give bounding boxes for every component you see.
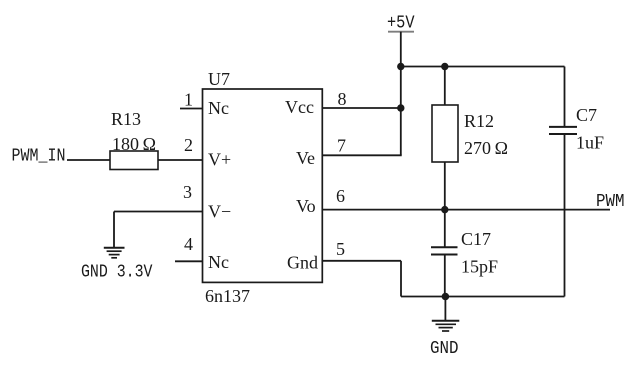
wire pin 1 stub (180, 108, 203, 110)
svg-text:2: 2 (184, 135, 193, 155)
svg-text:7: 7 (337, 136, 346, 156)
wire pin 5 horizontal (322, 260, 401, 262)
wire R13 to pin 2 (158, 159, 203, 161)
wire top rail (401, 66, 565, 68)
svg-text:Ve: Ve (296, 148, 315, 168)
svg-text:C17: C17 (461, 229, 491, 249)
wire pin 6 output to PWM (322, 209, 610, 211)
ground symbol right (GND) (432, 321, 460, 331)
junction ground node (442, 293, 450, 301)
wire R12 top lead (444, 67, 446, 106)
wire C17 bottom lead (444, 255, 446, 297)
wire PWM_IN to R13 (67, 159, 110, 161)
wire bottom ground rail (401, 296, 565, 298)
svg-text:R12: R12 (464, 111, 494, 131)
wire R12 bottom lead (444, 162, 446, 210)
svg-text:5: 5 (336, 239, 345, 259)
svg-text:PWM: PWM (596, 192, 625, 212)
wire +5V down to rail (400, 32, 402, 67)
IC U7 body (203, 89, 323, 282)
svg-text:1: 1 (184, 90, 193, 110)
svg-text:V−: V− (208, 202, 231, 222)
junction rail at R12 (441, 63, 448, 70)
svg-text:PWM_IN: PWM_IN (12, 147, 66, 167)
svg-text:1uF: 1uF (576, 133, 604, 153)
ground symbol left (3.3V ground) (104, 248, 125, 258)
svg-text:R13: R13 (111, 109, 141, 129)
wire pin 3 down to ground (113, 212, 115, 248)
svg-text:180 Ω: 180 Ω (112, 134, 156, 154)
wire right branch lower (C7 to ground rail) (564, 134, 566, 297)
svg-text:8: 8 (338, 89, 347, 109)
svg-text:4: 4 (184, 234, 193, 254)
junction pin 8 node (397, 104, 404, 111)
junction Vo node at R12/C17 (441, 206, 448, 213)
wire pin 8 to supply (322, 107, 401, 109)
svg-text:U7: U7 (208, 69, 230, 89)
capacitor C17 (431, 247, 458, 254)
wire pin 4 stub (175, 260, 203, 262)
resistor R13 (110, 151, 158, 170)
wire ground stem (444, 297, 446, 321)
svg-text:6n137: 6n137 (205, 286, 250, 306)
wire pin 3 horizontal (114, 211, 203, 213)
resistor R12 (432, 105, 458, 162)
svg-text:Vo: Vo (296, 196, 316, 216)
wire right branch upper (rail to C7) (564, 67, 566, 127)
svg-text:C7: C7 (576, 105, 597, 125)
capacitor C7 (549, 127, 577, 134)
svg-text:Gnd: Gnd (287, 253, 318, 273)
svg-text:+5V: +5V (387, 14, 415, 34)
svg-text:GND 3.3V: GND 3.3V (81, 263, 153, 283)
svg-text:15pF: 15pF (461, 257, 498, 277)
wire pin 5 down (400, 261, 402, 297)
svg-text:GND: GND (430, 339, 459, 359)
svg-text:V+: V+ (208, 150, 231, 170)
junction +5V rail left (397, 63, 404, 70)
svg-text:270 Ω: 270 Ω (464, 138, 508, 158)
svg-text:3: 3 (183, 182, 192, 202)
wire C17 top lead (444, 210, 446, 248)
svg-text:6: 6 (336, 186, 345, 206)
svg-text:Nc: Nc (208, 252, 229, 272)
svg-text:Nc: Nc (208, 98, 229, 118)
wire pin 7 horizontal (322, 154, 402, 156)
power symbol +5V (387, 14, 415, 34)
svg-text:Vcc: Vcc (285, 97, 314, 117)
wire supply down to pin 7 level (400, 67, 402, 156)
